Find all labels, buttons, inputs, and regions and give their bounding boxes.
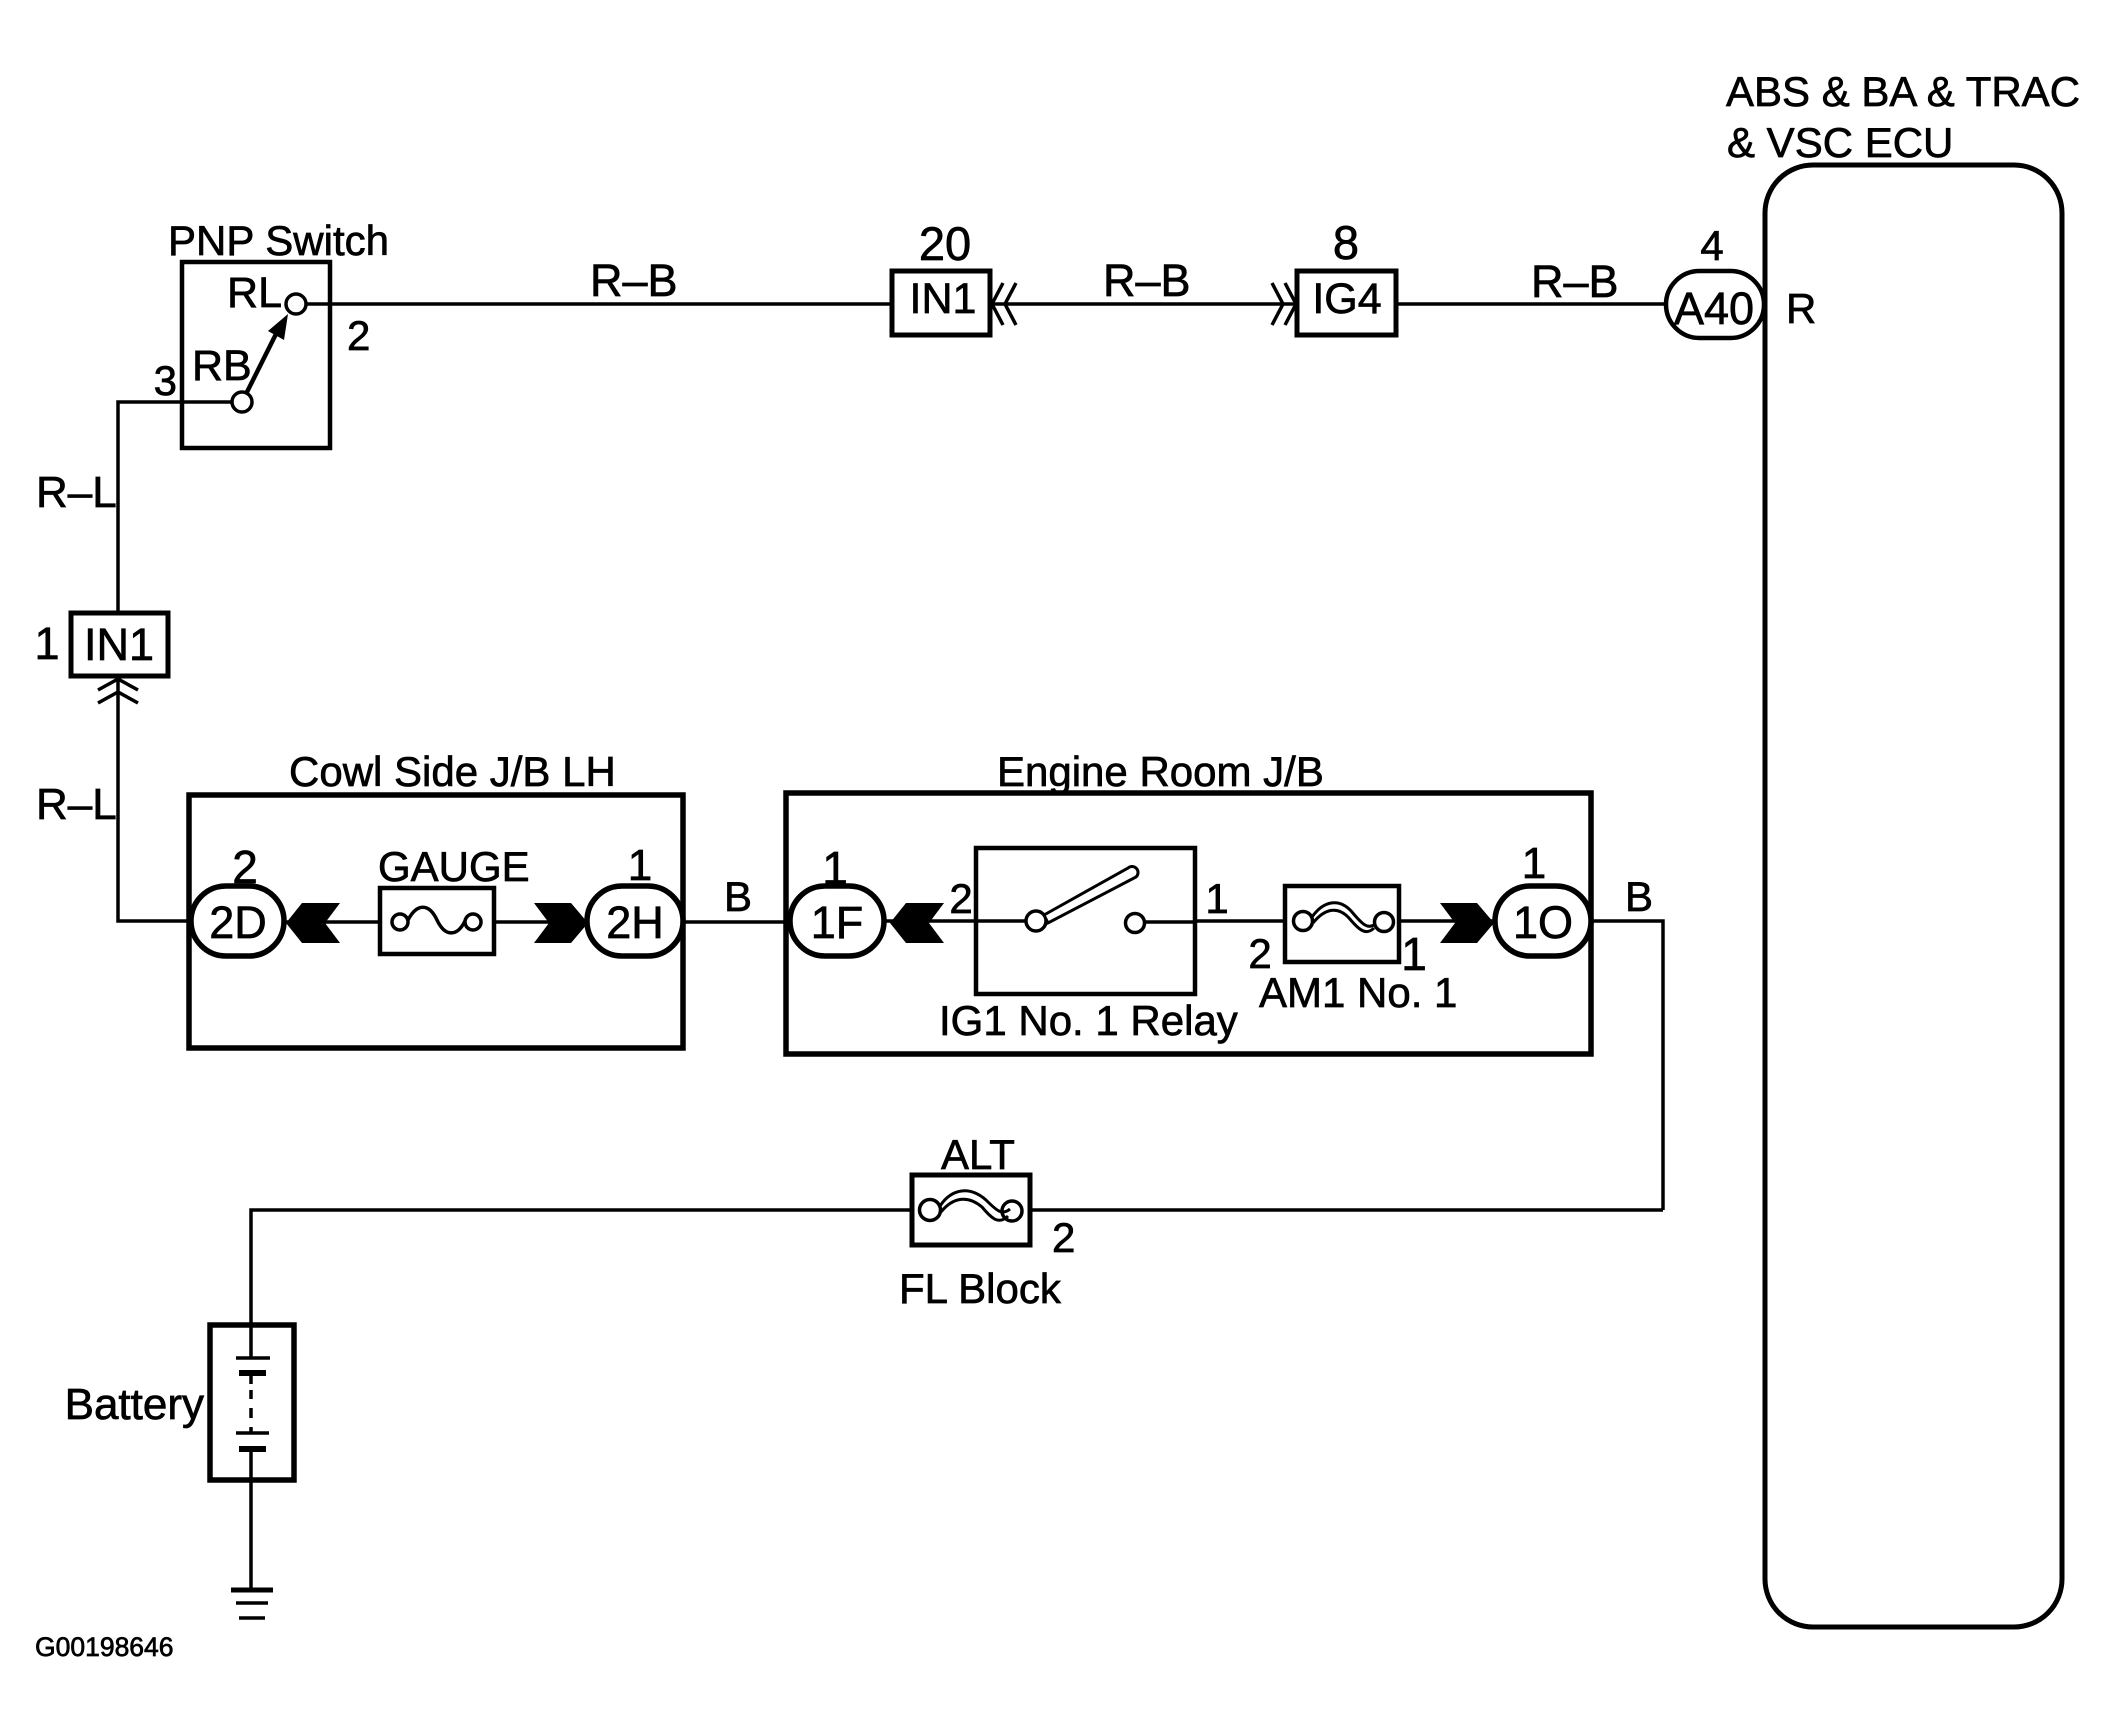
svg-text:A40: A40 [1674,283,1754,334]
Engine Room J/B box [786,748,1591,1054]
svg-text:R–B: R–B [1103,255,1191,306]
svg-text:R: R [1786,285,1816,332]
svg-text:2D: 2D [209,897,267,948]
wire battery to ground [249,1480,253,1589]
svg-text:4: 4 [1700,222,1723,269]
battery [65,1325,294,1480]
wire R-B from PNP pin 2 to connector IN1 [303,255,892,306]
ECU ABS & BA & TRAC & VSC ECU box [1726,68,2080,1627]
svg-text:1: 1 [34,618,59,669]
svg-text:Battery: Battery [65,1380,204,1429]
connector 2H [587,841,683,956]
PNP Switch [154,217,389,448]
Cowl Side J/B LH box [189,748,683,1048]
svg-text:& VSC ECU: & VSC ECU [1727,119,1953,166]
wire from PNP pin 3 down left column [36,402,232,613]
chevrons below left IN1 [98,679,138,703]
svg-text:R–B: R–B [590,255,678,306]
ground [231,1590,273,1618]
fusible link ALT (FL Block) [899,1131,1075,1312]
pin RL circle [286,294,306,314]
black connector arrow (right) before 1O [1440,903,1494,943]
svg-text:Cowl Side J/B LH: Cowl Side J/B LH [289,748,616,795]
junction connector IG4 [1297,216,1396,335]
svg-text:R–L: R–L [36,780,117,829]
wire relay to AM1 fuse [1194,919,1285,923]
black connector arrow (right) before 2H [534,903,588,943]
svg-text:1: 1 [1522,839,1546,888]
svg-text:2: 2 [347,312,370,359]
wire GAUGE to 2H [494,920,587,924]
connector 1F [790,842,884,956]
svg-text:8: 8 [1333,216,1359,269]
svg-text:IN1: IN1 [84,619,154,670]
svg-text:R–B: R–B [1531,256,1619,307]
svg-text:GAUGE: GAUGE [378,843,530,890]
svg-text:PNP Switch: PNP Switch [168,217,389,264]
wire 1F to relay [884,919,1026,923]
connector 2D [191,841,284,956]
svg-text:1F: 1F [811,897,864,948]
junction connector IN1 (left, cowl side) [34,613,168,676]
svg-text:1: 1 [1205,875,1228,922]
switch arm with arrowhead [247,324,281,392]
wire AM1 to 1O [1399,919,1495,923]
svg-text:1O: 1O [1513,897,1573,948]
svg-text:FL Block: FL Block [899,1265,1062,1312]
svg-text:ALT: ALT [941,1131,1015,1178]
svg-text:IG1 No. 1 Relay: IG1 No. 1 Relay [939,997,1238,1044]
svg-text:1: 1 [822,842,848,894]
svg-text:2: 2 [232,841,258,893]
wire B from 1O down to bottom row [1591,873,1663,1210]
wire R-L down to cowl J/B [36,676,191,921]
chevrons at IN1 right [992,283,1016,325]
black connector arrow (left) after 2D [286,903,340,943]
svg-text:IN1: IN1 [910,275,977,323]
wire 2D to GAUGE [285,920,380,924]
relay IG1 No. 1 [939,848,1238,1044]
wire from ALT left to battery column [251,1210,912,1325]
fuse GAUGE [378,843,530,954]
svg-text:Engine Room J/B: Engine Room J/B [997,748,1324,795]
svg-text:G00198646: G00198646 [35,1632,174,1662]
svg-text:ABS & BA & TRAC: ABS & BA & TRAC [1726,68,2080,115]
svg-text:B: B [724,873,752,920]
connector 1O [1495,839,1591,956]
svg-text:1: 1 [628,841,652,890]
svg-text:AM1 No. 1: AM1 No. 1 [1259,969,1457,1016]
svg-text:2: 2 [949,875,972,922]
svg-text:RL: RL [227,269,282,317]
black connector arrow (left) after 1F [890,903,944,943]
connector A40 pin 4 into ECU [1666,222,1816,338]
bottom wire from ALT to corner [1030,1208,1663,1212]
svg-text:B: B [1625,873,1653,920]
svg-text:20: 20 [919,217,971,270]
wire R-B from IN1 to IG4 [990,255,1297,306]
wire R-B from IG4 to A40 [1396,256,1667,307]
svg-text:3: 3 [154,357,177,404]
wire B from 2H to 1F [683,873,790,922]
fuse AM1 No. 1 [1248,886,1457,1016]
junction connector IN1 (instrument panel) [892,217,990,335]
svg-text:2: 2 [1052,1214,1075,1261]
svg-text:R–L: R–L [36,468,117,517]
svg-text:RB: RB [192,342,252,390]
svg-text:IG4: IG4 [1312,275,1381,323]
svg-text:2H: 2H [606,897,664,948]
chevrons at IG4 left [1272,283,1296,325]
pin RB circle [232,392,252,412]
